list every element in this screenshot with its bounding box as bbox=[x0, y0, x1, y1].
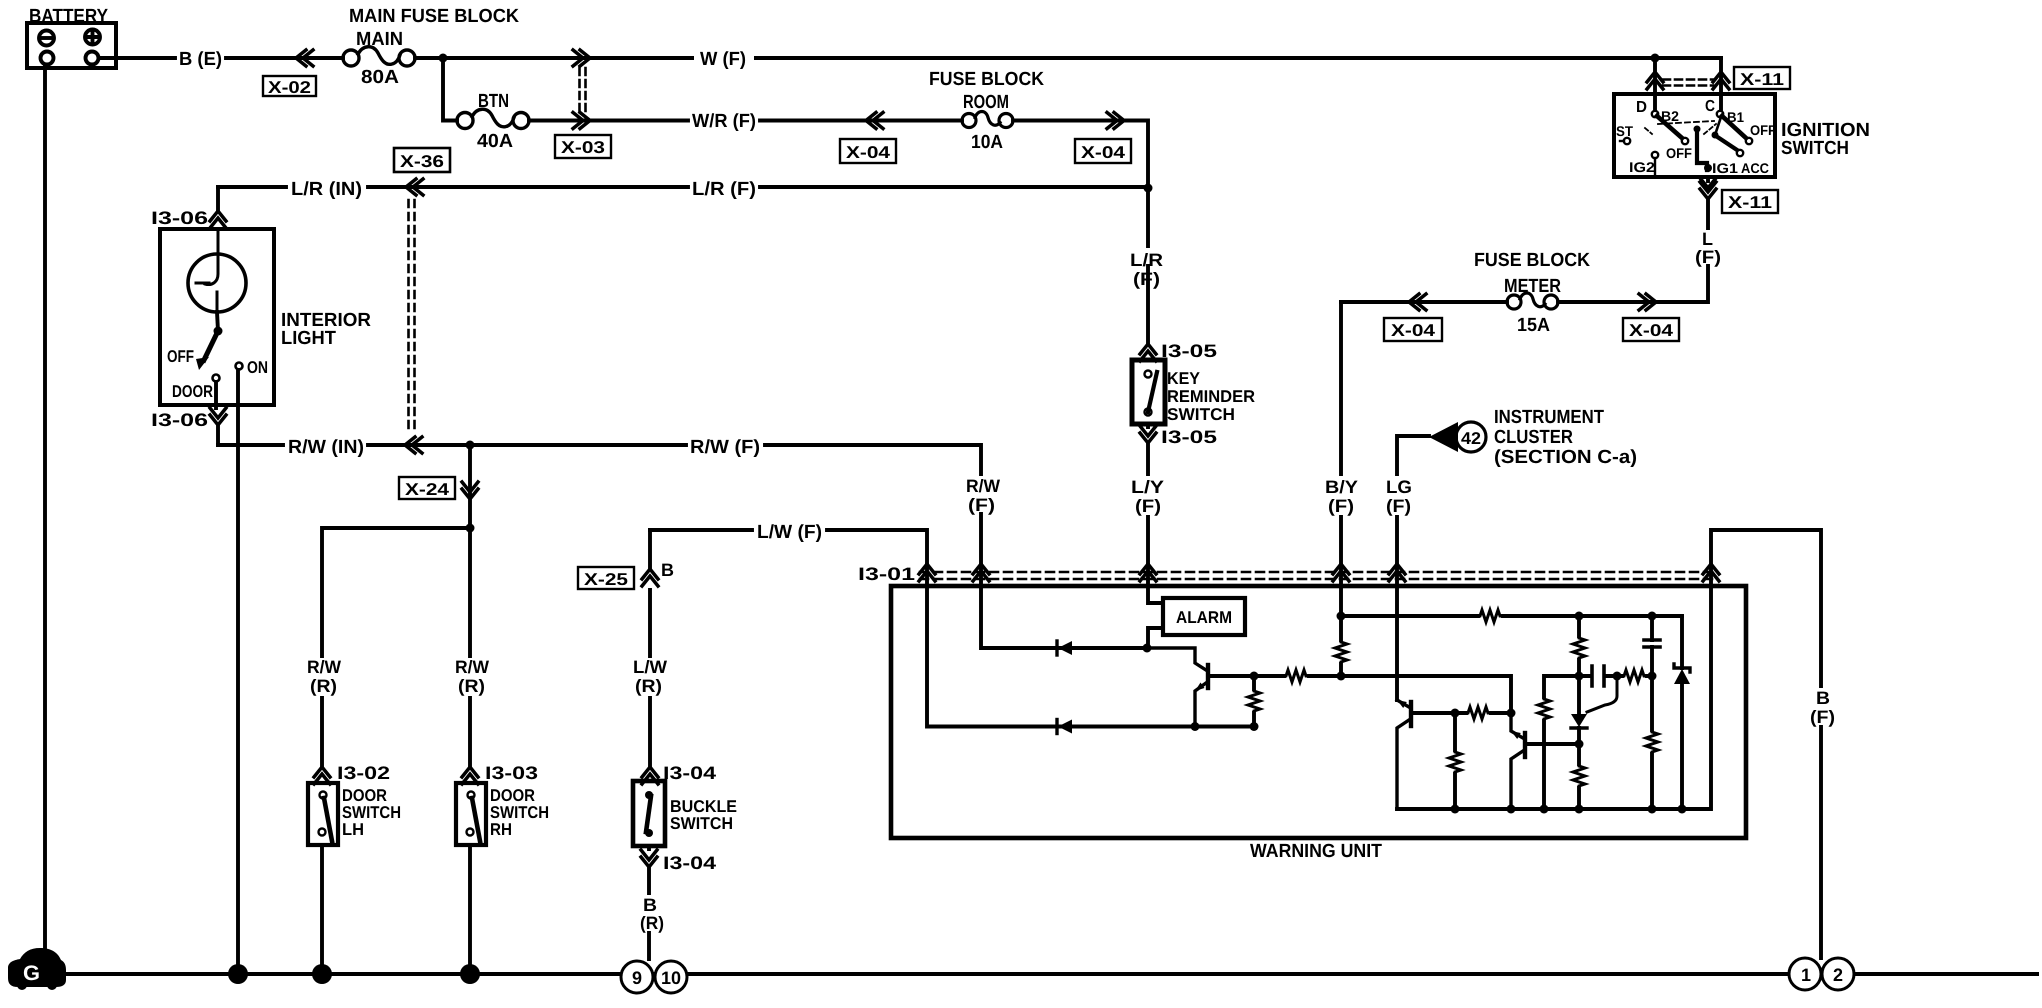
ignition IG1 wire bbox=[1697, 129, 1707, 170]
connector X-04 chevron meter left bbox=[1409, 294, 1426, 310]
battery positive terminal bbox=[85, 30, 100, 45]
svg-text:R/W: R/W bbox=[307, 657, 341, 677]
junction node B/Y base line bbox=[1337, 672, 1346, 681]
svg-text:ALARM: ALARM bbox=[1176, 608, 1232, 627]
svg-text:X-04: X-04 bbox=[846, 143, 891, 162]
connector X-03 label box bbox=[555, 135, 611, 158]
svg-text:80A: 80A bbox=[361, 67, 399, 88]
wire battery to ground (left vertical) bbox=[43, 65, 47, 953]
ignition contact ST bbox=[1624, 138, 1630, 144]
wire SCR anode vertical bbox=[1577, 616, 1581, 809]
svg-text:DOOR: DOOR bbox=[172, 382, 213, 401]
svg-text:10: 10 bbox=[661, 968, 681, 988]
svg-text:R/W (F): R/W (F) bbox=[690, 437, 760, 458]
ignition lever B2-OFF bbox=[1657, 116, 1682, 138]
junction dot R/W at X-24 bbox=[466, 441, 475, 450]
ignition contact B1 bbox=[1717, 111, 1723, 117]
wire buckle switch drop top bbox=[648, 530, 652, 767]
wire mid vertical branch bbox=[1544, 676, 1579, 809]
connector X-25 chevron bbox=[642, 569, 658, 586]
svg-text:C: C bbox=[1705, 98, 1715, 115]
svg-text:L/Y: L/Y bbox=[1131, 477, 1164, 497]
svg-text:X-04: X-04 bbox=[1629, 321, 1674, 340]
wire R/W inside bbox=[981, 565, 1147, 648]
svg-text:X-11: X-11 bbox=[1728, 193, 1772, 212]
junction node top line x1579 bbox=[1575, 612, 1584, 621]
connector I3-06 chevron top bbox=[210, 211, 226, 228]
ground bus bottom bbox=[66, 972, 2037, 976]
junction node base/resistors bbox=[1250, 672, 1259, 681]
svg-text:9: 9 bbox=[632, 968, 642, 988]
svg-text:INSTRUMENT: INSTRUMENT bbox=[1494, 407, 1604, 428]
svg-text:X-04: X-04 bbox=[1081, 143, 1126, 162]
ignition contact ACC bbox=[1737, 150, 1743, 156]
svg-text:B (E): B (E) bbox=[179, 49, 222, 70]
svg-text:I3-01: I3-01 bbox=[858, 564, 915, 584]
resistor R1 vertical bbox=[1248, 689, 1260, 713]
connector I3-01 chevron LG bbox=[1389, 564, 1405, 581]
wire door RH to bus bbox=[468, 845, 472, 974]
wire X-24 drop bbox=[468, 445, 472, 528]
connector X-11 chevron left bbox=[1647, 72, 1663, 89]
svg-text:X-11: X-11 bbox=[1740, 70, 1784, 89]
svg-text:(F): (F) bbox=[1810, 707, 1835, 727]
connector I3-01 chevron L/Y bbox=[1140, 564, 1156, 581]
svg-text:KEY: KEY bbox=[1167, 369, 1201, 388]
junction nodes rail bbox=[1451, 805, 1460, 814]
svg-text:I3-06: I3-06 bbox=[151, 410, 208, 430]
svg-text:FUSE BLOCK: FUSE BLOCK bbox=[1474, 250, 1590, 271]
wire door switch RH drop bbox=[468, 528, 472, 767]
junction node C2 top bbox=[1648, 612, 1657, 621]
svg-text:I3-05: I3-05 bbox=[1161, 341, 1217, 361]
junction dot W(F) at ignition bbox=[1651, 54, 1660, 63]
resistor R3 on B/Y bbox=[1335, 640, 1347, 664]
wire base line to Q3 collector bbox=[1341, 676, 1511, 713]
svg-text:FUSE BLOCK: FUSE BLOCK bbox=[929, 69, 1044, 90]
svg-text:1: 1 bbox=[1801, 965, 1811, 985]
svg-text:(F): (F) bbox=[1135, 496, 1161, 516]
ignition contact OFF right bbox=[1746, 138, 1752, 144]
svg-text:ON: ON bbox=[247, 358, 268, 377]
svg-text:I3-05: I3-05 bbox=[1161, 427, 1217, 447]
connector X-03 dashed link bbox=[580, 68, 586, 112]
svg-text:D: D bbox=[1636, 99, 1647, 116]
door switch LH bbox=[308, 783, 338, 845]
svg-text:MAIN FUSE BLOCK: MAIN FUSE BLOCK bbox=[349, 6, 519, 27]
connector X-36 chevron lower bbox=[405, 437, 422, 453]
svg-text:I3-06: I3-06 bbox=[151, 208, 208, 228]
junction node Q3 collector bbox=[1507, 709, 1516, 718]
connector X-11 dashed link bbox=[1663, 80, 1713, 86]
svg-text:(F): (F) bbox=[1695, 247, 1721, 267]
wire meter fuse line bbox=[1341, 300, 1656, 304]
svg-text:SWITCH: SWITCH bbox=[1167, 405, 1235, 424]
fuse METER 15A bbox=[1507, 293, 1558, 309]
junction dot bus door RH bbox=[460, 964, 480, 984]
wire L/W (F) line bbox=[650, 530, 927, 565]
battery post left bbox=[41, 52, 54, 65]
resistor R2 horizontal bbox=[1284, 670, 1309, 682]
junction dot door switch branch bbox=[466, 524, 475, 533]
resistor R5 vertical bbox=[1573, 636, 1585, 660]
bus connector circle 1 bbox=[1789, 958, 1821, 990]
wire W/R (F) line bbox=[529, 121, 1148, 189]
junction dot L/R at room fuse output bbox=[1144, 184, 1153, 193]
resistor R10 vertical bbox=[1573, 764, 1585, 788]
wire L/R line bbox=[218, 185, 1148, 189]
connector X-04 label box left bbox=[840, 139, 896, 163]
junction node C2 bottom bbox=[1648, 672, 1657, 681]
wire Q3 base bbox=[1525, 742, 1579, 746]
warning unit box bbox=[891, 586, 1746, 838]
svg-text:LG: LG bbox=[1386, 477, 1412, 497]
svg-text:ST: ST bbox=[1616, 123, 1633, 139]
svg-text:WARNING UNIT: WARNING UNIT bbox=[1250, 841, 1382, 862]
alarm unit box bbox=[1163, 598, 1245, 635]
wire B(E) top line bbox=[99, 56, 1721, 60]
svg-text:L/R (IN): L/R (IN) bbox=[291, 179, 362, 200]
connector I3-01 dashed bus bbox=[920, 572, 1718, 579]
connector I3-05 chevron top bbox=[1140, 344, 1156, 361]
svg-text:LIGHT: LIGHT bbox=[281, 328, 336, 349]
svg-text:(F): (F) bbox=[968, 495, 995, 515]
connector I3-04 chevron bottom bbox=[641, 850, 657, 867]
instrument cluster arrow bbox=[1429, 422, 1458, 452]
connector I3-05 chevron bottom bbox=[1140, 426, 1156, 443]
ignition lever B1-OFF bbox=[1722, 116, 1746, 138]
svg-text:15A: 15A bbox=[1517, 315, 1550, 336]
connector X-24 label box bbox=[399, 477, 455, 499]
svg-text:X-25: X-25 bbox=[584, 570, 628, 589]
svg-text:W (F): W (F) bbox=[700, 49, 746, 70]
connector I3-01 chevron B/Y bbox=[1333, 564, 1349, 581]
connector X-02 label box bbox=[263, 76, 316, 97]
connector X-04 chevron meter right bbox=[1639, 294, 1656, 310]
svg-text:B: B bbox=[661, 560, 674, 580]
svg-text:(SECTION C-a): (SECTION C-a) bbox=[1494, 447, 1637, 468]
wire buckle to bus circles bbox=[647, 846, 651, 959]
wire L/W inside bbox=[927, 565, 1254, 727]
zener diode Z1 bbox=[1674, 616, 1690, 809]
connector I3-01 chevron B bbox=[1703, 564, 1719, 581]
wire top internal line bbox=[1341, 614, 1682, 618]
resistor R6 horizontal bbox=[1622, 670, 1647, 682]
connector I3-01 chevron R/W bbox=[973, 564, 989, 581]
svg-text:BATTERY: BATTERY bbox=[29, 6, 108, 27]
connector X-25 label box bbox=[578, 567, 634, 589]
connector I3-04 chevron top bbox=[642, 767, 658, 784]
wire Q2 base bbox=[1411, 711, 1455, 715]
connector X-04 chevron right bbox=[1107, 113, 1124, 129]
resistor R4 top line bbox=[1478, 610, 1503, 622]
wire LG (F) to instrument cluster bbox=[1397, 436, 1429, 565]
interior light bulb bbox=[188, 229, 246, 312]
junction node Q1 emitter on lower line bbox=[1191, 722, 1200, 731]
connector X-03 chevron on W(F) bbox=[573, 50, 590, 66]
svg-text:BTN: BTN bbox=[478, 91, 509, 112]
svg-text:IG2: IG2 bbox=[1629, 159, 1655, 175]
junction node gate takeoff bbox=[1613, 672, 1622, 681]
junction dot main fuse output bbox=[439, 54, 448, 63]
wire B/Y (F) vertical bbox=[1339, 302, 1343, 565]
svg-text:(R): (R) bbox=[635, 676, 662, 696]
junction node B/Y top line bbox=[1337, 612, 1346, 621]
transistor Q1 bbox=[1147, 648, 1208, 727]
interior light contact DOOR bbox=[213, 375, 220, 382]
svg-text:2: 2 bbox=[1833, 965, 1843, 985]
svg-text:R/W: R/W bbox=[455, 657, 489, 677]
interior light box bbox=[160, 229, 274, 405]
wire LG inside bbox=[1395, 565, 1399, 700]
fuse MAIN 80A bbox=[343, 47, 415, 66]
ignition contact OFF left bbox=[1682, 138, 1688, 144]
svg-text:W/R (F): W/R (F) bbox=[692, 111, 756, 132]
SCR thyristor bbox=[1571, 676, 1617, 728]
junction node R1 bottom bbox=[1250, 722, 1259, 731]
interior light contact ON bbox=[236, 363, 243, 370]
svg-text:CLUSTER: CLUSTER bbox=[1494, 427, 1573, 448]
ignition contact B2 bbox=[1652, 111, 1658, 117]
connector X-04 label box right bbox=[1075, 139, 1131, 163]
wire L/R (F) vertical to key reminder bbox=[1146, 188, 1150, 344]
svg-text:R/W (IN): R/W (IN) bbox=[288, 437, 364, 458]
svg-text:LH: LH bbox=[342, 820, 364, 839]
svg-text:(R): (R) bbox=[640, 913, 664, 933]
svg-text:ROOM: ROOM bbox=[963, 92, 1009, 113]
connector X-02 chevron bbox=[296, 50, 313, 66]
interior light switch pivot bbox=[214, 327, 223, 336]
connector X-36 label box bbox=[394, 148, 450, 172]
svg-text:(F): (F) bbox=[1133, 269, 1160, 289]
connector X-04 chevron left bbox=[866, 113, 883, 129]
bus connector circle 10 bbox=[655, 961, 687, 993]
connector I3-03 chevron bbox=[462, 767, 478, 784]
wire L/Y into alarm bbox=[1148, 565, 1163, 648]
svg-text:MAIN: MAIN bbox=[356, 29, 403, 50]
svg-text:OFF: OFF bbox=[1750, 122, 1776, 138]
wire branch to door switch LH bbox=[322, 528, 470, 767]
wire interior light drop from L/R line bbox=[216, 187, 220, 211]
wire ON contact to ground bus bbox=[236, 370, 240, 974]
svg-text:(F): (F) bbox=[1386, 496, 1411, 516]
svg-text:I3-03: I3-03 bbox=[485, 763, 538, 783]
svg-text:40A: 40A bbox=[477, 131, 513, 152]
wire B/Y inside bbox=[1339, 565, 1343, 676]
connector X-36 dashed link bbox=[409, 200, 415, 434]
connector X-03 chevron on W/R bbox=[573, 113, 590, 129]
resistor R8 horizontal bbox=[1466, 707, 1491, 719]
door switch RH bbox=[456, 783, 486, 845]
svg-text:I3-02: I3-02 bbox=[337, 763, 390, 783]
svg-text:X-03: X-03 bbox=[561, 138, 605, 157]
svg-text:I3-04: I3-04 bbox=[663, 853, 716, 873]
transistor Q3 bbox=[1511, 713, 1525, 809]
wire ignition feeds bbox=[1655, 58, 1721, 110]
ignition lever B1-ACC bbox=[1715, 117, 1721, 135]
connector X-11 chevron bottom bbox=[1700, 182, 1716, 199]
svg-text:(F): (F) bbox=[1328, 496, 1354, 516]
junction node SCR anode bbox=[1575, 672, 1584, 681]
wire internal ground rail bbox=[1397, 565, 1711, 809]
connector I3-01 chevron L/W bbox=[919, 564, 935, 581]
ignition dashed detent line bbox=[1658, 121, 1714, 124]
connector X-11 label box bottom bbox=[1722, 190, 1778, 213]
svg-text:I3-04: I3-04 bbox=[663, 763, 716, 783]
key reminder switch bbox=[1132, 360, 1165, 424]
svg-text:(R): (R) bbox=[458, 676, 485, 696]
junction node L/Y-diode bbox=[1143, 644, 1152, 653]
svg-text:REMINDER: REMINDER bbox=[1167, 387, 1255, 406]
resistor R7 vertical bbox=[1538, 697, 1550, 721]
battery post right bbox=[86, 52, 99, 65]
svg-text:X-24: X-24 bbox=[405, 480, 450, 499]
resistor R11 vertical bbox=[1646, 730, 1658, 754]
svg-text:42: 42 bbox=[1461, 429, 1481, 448]
wire BTN branch vertical bbox=[443, 58, 457, 121]
svg-text:X-36: X-36 bbox=[400, 152, 444, 171]
svg-text:L/R: L/R bbox=[1130, 250, 1163, 270]
capacitor C1 series bbox=[1579, 666, 1617, 686]
svg-text:X-02: X-02 bbox=[268, 78, 311, 97]
connector X-04 label box meter left bbox=[1384, 318, 1442, 341]
svg-text:G: G bbox=[23, 962, 40, 985]
svg-text:OFF: OFF bbox=[1666, 145, 1692, 161]
wire DOOR contact down bbox=[216, 382, 218, 445]
svg-text:B/Y: B/Y bbox=[1325, 477, 1358, 497]
diode D2 lower bbox=[1057, 720, 1072, 734]
svg-text:X-04: X-04 bbox=[1391, 321, 1436, 340]
svg-text:IG1: IG1 bbox=[1712, 160, 1738, 176]
bus connector circle 9 bbox=[621, 961, 653, 993]
battery negative terminal bbox=[39, 31, 54, 46]
svg-text:L/R (F): L/R (F) bbox=[692, 179, 756, 200]
wire L/Y (F) vertical bbox=[1146, 424, 1150, 565]
svg-text:OFF: OFF bbox=[167, 347, 194, 366]
svg-text:(R): (R) bbox=[310, 676, 337, 696]
diode D1 upper bbox=[1057, 641, 1072, 655]
svg-text:B: B bbox=[1816, 688, 1830, 708]
connector X-04 label box meter right bbox=[1623, 318, 1679, 341]
connector X-11 label box top bbox=[1734, 67, 1790, 89]
junction node Q2 base bbox=[1451, 709, 1460, 718]
resistor R9 vertical bbox=[1449, 750, 1461, 774]
svg-text:SWITCH: SWITCH bbox=[1781, 138, 1849, 159]
connector X-11 chevron right bbox=[1713, 72, 1729, 89]
wire Q1 base bbox=[1208, 674, 1254, 678]
battery bbox=[27, 23, 116, 68]
svg-text:ACC: ACC bbox=[1741, 160, 1769, 176]
svg-text:SWITCH: SWITCH bbox=[670, 814, 733, 833]
svg-text:R/W: R/W bbox=[966, 476, 1000, 496]
connector X-24 chevron bbox=[462, 482, 478, 499]
svg-text:10A: 10A bbox=[971, 132, 1003, 153]
svg-text:L/W: L/W bbox=[633, 657, 667, 677]
ground symbol (body ground car) bbox=[8, 948, 66, 990]
ignition switch box bbox=[1614, 94, 1775, 177]
capacitor C2 parallel bbox=[1644, 616, 1660, 676]
wire R/W (IN) line bbox=[218, 445, 981, 565]
svg-text:B: B bbox=[643, 895, 657, 915]
connector I3-06 chevron bottom bbox=[210, 408, 226, 425]
bus connector circle 2 bbox=[1822, 958, 1854, 990]
instrument cluster circle 42 bbox=[1456, 422, 1486, 452]
wire B (F) to bus bbox=[1711, 530, 1821, 958]
connector I3-02 chevron bbox=[314, 767, 330, 784]
wire ignition output L bbox=[1656, 177, 1708, 302]
svg-text:L: L bbox=[1702, 229, 1713, 249]
junction node Q3 base / SCR cathode bbox=[1575, 740, 1584, 749]
connector X-36 chevron upper bbox=[406, 179, 423, 195]
wire door LH to bus bbox=[320, 845, 324, 974]
svg-text:L/W (F): L/W (F) bbox=[757, 522, 822, 543]
transistor Q2 bbox=[1397, 700, 1411, 809]
interior light switch lever bbox=[204, 331, 218, 360]
junction dot bus interior light bbox=[228, 964, 248, 984]
svg-text:RH: RH bbox=[490, 820, 512, 839]
label W (F) with wire break bbox=[694, 46, 754, 70]
buckle switch bbox=[633, 781, 665, 846]
fuse BTN 40A bbox=[457, 109, 529, 128]
junction dot bus door LH bbox=[312, 964, 332, 984]
fuse ROOM 10A bbox=[962, 112, 1013, 128]
ignition contact IG2 bbox=[1652, 152, 1658, 158]
